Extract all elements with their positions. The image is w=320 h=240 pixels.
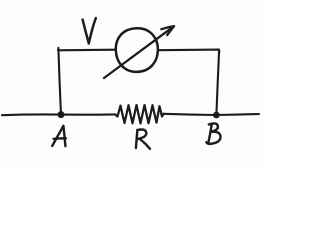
resistor R: [115, 105, 164, 123]
voltmeter V (circle): [116, 28, 158, 72]
wire: node A up to top-left corner: [58, 48, 61, 115]
label V: [83, 18, 96, 43]
node B: [214, 112, 220, 118]
label R: [136, 129, 150, 148]
node A: [58, 112, 64, 118]
label A: [52, 126, 66, 146]
wire: voltmeter to top-right corner: [158, 50, 219, 52]
wire: node A to resistor: [61, 113, 115, 115]
wire: bottom rail left segment: [2, 113, 58, 116]
label B: [206, 123, 220, 143]
wire: resistor to node B: [164, 114, 217, 115]
wire: top-right corner down to node B: [216, 51, 219, 115]
arrowhead: [161, 26, 174, 35]
wire: node B to right edge: [216, 114, 259, 115]
wire: top-left corner to voltmeter: [58, 49, 116, 52]
arrow (meter needle) shaft: [104, 26, 174, 78]
